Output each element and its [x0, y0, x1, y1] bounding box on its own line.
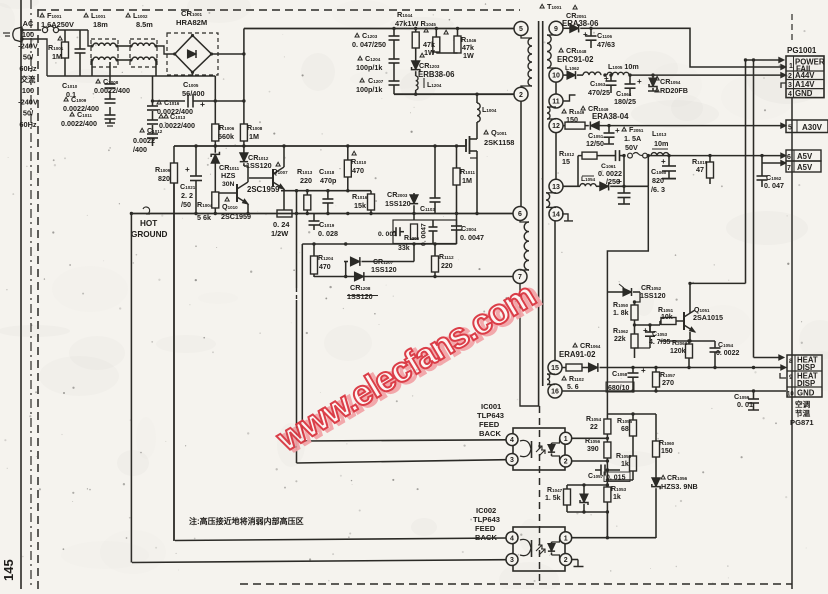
diode CR1049 — [588, 121, 601, 129]
svg-text:1k: 1k — [613, 494, 621, 501]
svg-text:IC002: IC002 — [476, 506, 496, 515]
svg-text:10m: 10m — [654, 139, 668, 148]
wire bridge+ vertical — [242, 29, 245, 125]
svg-text:IC001: IC001 — [481, 402, 502, 411]
svg-text:PG871: PG871 — [790, 418, 814, 427]
wire bridge out — [212, 52, 246, 55]
svg-text:1. 8k: 1. 8k — [613, 310, 629, 317]
label PG871 — [790, 399, 814, 427]
pin 7 — [513, 270, 527, 284]
resistor R1011 — [453, 146, 475, 214]
resistor R1008 — [240, 123, 262, 146]
secondary winding 9-10 — [547, 35, 556, 68]
svg-text:+: + — [661, 157, 666, 166]
zener CR1056 HZS3.9NB — [652, 475, 698, 538]
IC002 pin1 — [560, 532, 572, 544]
svg-text:0. 0047: 0. 0047 — [460, 233, 484, 242]
resistor R1045 — [423, 28, 440, 57]
resistor R1058 1k — [616, 453, 637, 480]
resistor R1204 470 — [311, 244, 334, 277]
pin2 A44V — [788, 71, 815, 80]
pin 9 — [549, 21, 563, 35]
wire IC001 pin4 in — [303, 440, 506, 441]
capacitor C1106 47/63 — [583, 27, 615, 49]
svg-text:CR1056: CR1056 — [667, 475, 688, 482]
wire IC002 pin3 in — [132, 560, 506, 563]
svg-text:C1053: C1053 — [652, 331, 668, 338]
wire stack top — [607, 412, 656, 415]
pin3 A14V — [788, 80, 815, 89]
page left edge — [20, 0, 22, 589]
wire pins 10-11 — [555, 82, 557, 95]
wire base node — [633, 323, 660, 331]
choke L1002 — [130, 39, 158, 67]
wire pin7 row — [314, 275, 514, 278]
svg-text:0. 015: 0. 015 — [606, 475, 626, 482]
svg-text:22k: 22k — [614, 336, 626, 343]
connector HEAT box — [787, 355, 822, 397]
svg-text:ERA38-04: ERA38-04 — [592, 112, 629, 121]
mosfet Q1001 — [466, 122, 514, 214]
wire A5V to mid vertical — [647, 156, 649, 187]
svg-text:1: 1 — [564, 535, 568, 542]
IC002 box — [513, 527, 565, 571]
pin 15 — [548, 361, 562, 375]
wire pin7 down — [520, 283, 540, 406]
capacitor C1010 — [62, 30, 86, 99]
diode pin10 — [563, 71, 584, 79]
wire snubber bottoms — [436, 52, 457, 54]
AC voltage text — [18, 19, 38, 129]
pin 6 — [513, 207, 527, 221]
resistor R1063 120k — [670, 340, 693, 368]
pin1 POWER FAIL — [789, 58, 825, 74]
IC002 pin4 — [506, 532, 518, 544]
svg-text:0. 047/250: 0. 047/250 — [352, 40, 386, 49]
svg-text:HOT: HOT — [140, 219, 157, 228]
svg-text:R1204: R1204 — [318, 255, 334, 262]
svg-text:A30V: A30V — [802, 123, 823, 132]
svg-text:4: 4 — [510, 535, 514, 542]
wire fb horizontal A — [690, 282, 746, 284]
wire fb vertical B — [753, 60, 755, 358]
fuse F2051 — [622, 125, 647, 158]
IC002 photodiode — [548, 538, 560, 560]
wire top bus — [244, 27, 514, 30]
svg-text:+: + — [583, 30, 588, 39]
svg-text:15k: 15k — [354, 201, 366, 210]
wire IC001 pin1 out — [572, 437, 609, 440]
capacitor C1060 820/6.3 — [651, 156, 676, 194]
arrow power fail — [781, 64, 786, 69]
capacitor C1058 680/10 — [606, 366, 646, 392]
svg-text:+: + — [615, 126, 620, 135]
label CR1061 — [562, 5, 599, 28]
svg-text:47/63: 47/63 — [597, 40, 615, 49]
svg-text:33k: 33k — [398, 245, 410, 252]
capacitor 0.0047 rotated — [421, 220, 438, 246]
svg-text:1W: 1W — [424, 48, 435, 57]
svg-text:ERC91-02: ERC91-02 — [557, 55, 594, 64]
resistor R1057 270 — [653, 368, 676, 392]
label L1001 — [84, 11, 108, 29]
svg-text:空调: 空调 — [795, 399, 811, 409]
pin 12 — [549, 119, 563, 133]
fuse F1001 — [42, 26, 88, 33]
resistor R1016 — [352, 191, 375, 214]
capacitor C1019 — [309, 214, 338, 239]
svg-text:1M: 1M — [249, 132, 259, 141]
arrow A30V — [781, 123, 786, 128]
resistor R1102 5.6 — [562, 364, 587, 391]
capacitor C1064 180/25 — [614, 75, 642, 106]
svg-text:C1057: C1057 — [588, 473, 604, 480]
secondary winding 11-12 — [547, 107, 556, 119]
wire 2SA bus top — [607, 291, 620, 293]
IC002 pin2 — [560, 554, 572, 566]
svg-text:1SS120: 1SS120 — [246, 161, 272, 170]
wire N rail to 560k — [214, 76, 216, 101]
svg-text:1/2W: 1/2W — [271, 229, 288, 238]
svg-text:BACK: BACK — [479, 429, 501, 438]
resistor R1013 — [297, 167, 313, 214]
svg-text:R1102: R1102 — [569, 376, 584, 383]
svg-text:ERA38-06: ERA38-06 — [562, 19, 599, 28]
wire pins 12-13 — [555, 132, 557, 180]
svg-text:15: 15 — [562, 157, 570, 166]
svg-text:0.0022/400: 0.0022/400 — [61, 119, 97, 128]
svg-text:+: + — [617, 176, 622, 186]
IC002 labels — [473, 506, 500, 542]
svg-text:0.0022/400: 0.0022/400 — [94, 86, 130, 95]
secondary winding 13-14 — [546, 193, 556, 208]
wire 2SA node — [633, 292, 640, 306]
svg-text:100: 100 — [22, 30, 34, 39]
IC001 pin1 — [560, 432, 572, 444]
svg-text:注:高压接近地将消弱内部高压区: 注:高压接近地将消弱内部高压区 — [189, 516, 304, 526]
svg-text:R1060: R1060 — [659, 440, 675, 447]
pin4 GND — [788, 89, 813, 98]
label CR1064 ERA91-02 — [559, 341, 601, 359]
svg-text:FEED: FEED — [479, 420, 500, 429]
IC001 box — [513, 428, 565, 470]
resistor R1004 — [197, 166, 219, 222]
svg-text:5: 5 — [519, 26, 523, 33]
svg-text:820: 820 — [652, 176, 664, 185]
wire IC002 pin1 out — [572, 536, 656, 539]
svg-text:9: 9 — [789, 374, 793, 381]
svg-text:0. 0047: 0. 0047 — [421, 223, 428, 246]
svg-text:C1103: C1103 — [420, 206, 435, 213]
inductor L1004 — [477, 94, 497, 122]
svg-text:2. 2: 2. 2 — [181, 191, 193, 200]
pin 16 — [548, 384, 562, 398]
svg-text:-240V: -240V — [18, 97, 38, 106]
svg-text:1M: 1M — [52, 52, 62, 61]
wire IC001 pin2 out — [572, 459, 609, 462]
hot ground bus — [131, 212, 513, 215]
wire pin9 to connector — [591, 28, 783, 67]
resistor R1010 — [344, 146, 366, 191]
diode CR2051 — [563, 24, 592, 32]
svg-text:R1050: R1050 — [613, 302, 629, 309]
svg-text:R1112: R1112 — [439, 254, 454, 261]
svg-text:A5V: A5V — [797, 163, 813, 172]
svg-text:HZS: HZS — [221, 171, 236, 180]
zener CR1054 RD20FB — [648, 75, 688, 95]
svg-text:/400: /400 — [133, 145, 147, 154]
resistor R1055 68 — [617, 414, 637, 454]
svg-text:HZS3. 9NB: HZS3. 9NB — [661, 482, 698, 491]
svg-text:390: 390 — [587, 446, 599, 453]
diode row2 — [347, 272, 378, 301]
svg-text:60Hz: 60Hz — [19, 120, 37, 129]
label C1013 — [159, 112, 195, 130]
svg-text:0. 028: 0. 028 — [318, 229, 338, 238]
svg-text:2: 2 — [519, 92, 523, 99]
page number 145 — [1, 559, 16, 581]
svg-text:15: 15 — [551, 365, 559, 372]
resistor R1046 — [444, 29, 477, 61]
svg-text:56/400: 56/400 — [182, 89, 205, 98]
svg-text:3: 3 — [510, 557, 514, 564]
svg-text:4. 7/35: 4. 7/35 — [649, 339, 671, 346]
wire 2SA bottom join — [635, 344, 651, 348]
zener CR1011 — [211, 146, 240, 188]
resistor R1019 47 — [692, 156, 714, 184]
transistor Q1007 — [249, 146, 288, 214]
wire fb loop R1009 v — [173, 183, 175, 541]
wire fb loop inner v1 — [296, 191, 298, 463]
wire pin2 — [394, 93, 514, 96]
label C1016 — [157, 98, 193, 116]
capacitor C1051 12/50 — [586, 126, 620, 148]
isolation dashed line — [539, 406, 541, 584]
wire R1012 down — [577, 156, 579, 187]
svg-text:1M: 1M — [462, 176, 472, 185]
svg-text:R1053: R1053 — [611, 486, 627, 493]
svg-text:11: 11 — [552, 99, 560, 106]
capacitor C1054 0.0022 — [710, 341, 740, 368]
transistor Q1010 — [216, 166, 251, 221]
pin 10 — [549, 68, 563, 82]
resistor R1006 — [212, 101, 235, 146]
wire emitter rail — [281, 189, 371, 192]
label L1062 — [565, 65, 580, 72]
arrow pin15 row8 — [781, 365, 786, 370]
label F1001 — [40, 11, 74, 29]
wire diode row1 — [344, 244, 414, 275]
wire fb loop inner v2 — [301, 244, 303, 441]
resistor R1012 15 — [559, 149, 600, 166]
ground hook pin11 — [563, 95, 576, 101]
wire mid rail — [174, 144, 466, 147]
svg-text:0. 01: 0. 01 — [737, 400, 753, 409]
capacitor C1204 — [356, 40, 400, 72]
capacitor C1061 series — [598, 150, 624, 186]
AC plug — [3, 27, 24, 42]
capacitor C1103 — [420, 146, 441, 214]
svg-text:R2063: R2063 — [672, 340, 688, 347]
svg-text:0. 047: 0. 047 — [764, 181, 784, 190]
connector A30V box — [786, 120, 828, 133]
svg-text:+: + — [641, 366, 646, 375]
resistor R1001 — [48, 30, 69, 76]
svg-text:+: + — [185, 165, 190, 174]
wire A30V — [601, 124, 783, 127]
svg-text:2: 2 — [564, 557, 568, 564]
capacitor C1103 470/25 — [588, 74, 617, 97]
svg-text:470p: 470p — [320, 176, 337, 185]
transformer core — [539, 21, 543, 406]
note text — [189, 516, 304, 526]
RC box 0.001 33k — [378, 220, 457, 252]
watermark elecfans — [269, 274, 545, 462]
connector PG1001 box — [786, 56, 824, 98]
svg-text:TLP643: TLP643 — [477, 411, 504, 420]
wire L input — [22, 29, 41, 31]
pin8 HEAT DISP — [789, 356, 818, 372]
svg-text:470: 470 — [352, 166, 364, 175]
primary winding 5-2 — [521, 35, 532, 88]
wire fb mid rail — [302, 242, 456, 245]
connector PG1001 label — [787, 46, 817, 55]
resistor R1049 — [563, 122, 589, 129]
svg-text:7: 7 — [787, 165, 791, 172]
resistor R1005 0.24 — [271, 210, 292, 238]
capacitor C1059 0.01 — [734, 391, 759, 410]
svg-text:GND: GND — [797, 389, 815, 398]
pin 14 — [549, 207, 563, 221]
svg-text:6: 6 — [518, 211, 522, 218]
svg-text:+: + — [643, 326, 648, 335]
capacitor C2004 0.0047 — [451, 214, 484, 245]
pin 11 — [549, 94, 563, 108]
label C1005 — [182, 80, 205, 98]
wire fb vertical A — [744, 58, 755, 283]
label CR1001 — [176, 9, 207, 27]
svg-text:10: 10 — [787, 392, 794, 398]
IC001 pin2 — [560, 455, 572, 467]
wire choke1 bottom stub — [91, 60, 93, 76]
inductor L1103 — [583, 72, 601, 75]
svg-text:交流: 交流 — [21, 75, 36, 84]
svg-text:4: 4 — [510, 437, 514, 444]
svg-text:10: 10 — [552, 73, 560, 80]
zener D feedback — [580, 485, 588, 512]
capacitor C1203 — [352, 29, 400, 50]
svg-text:5. 6: 5. 6 — [567, 384, 579, 391]
wire pin2 to pin6 — [520, 101, 522, 206]
resistor R1052 1.5k — [545, 485, 571, 512]
arrow into row1b — [746, 57, 785, 62]
svg-text:/6. 3: /6. 3 — [651, 185, 665, 194]
wire A5V rail — [647, 154, 783, 157]
svg-text:TLP643: TLP643 — [473, 515, 500, 524]
capacitor C1018 — [319, 167, 337, 214]
svg-text:0.0022: 0.0022 — [133, 136, 155, 145]
svg-text:9: 9 — [554, 26, 558, 33]
svg-text:100: 100 — [22, 86, 34, 95]
svg-text:12/50: 12/50 — [586, 139, 604, 148]
arrow into HEAT row8 — [754, 355, 785, 360]
svg-text:18m: 18m — [93, 20, 108, 29]
wire choke2 to bridge — [156, 46, 174, 54]
wire 2SA emitter up — [688, 282, 691, 310]
svg-text:/50: /50 — [181, 200, 191, 209]
resistor R1061 10k — [658, 307, 684, 325]
label C1012 — [133, 126, 163, 154]
IC001 photodiode — [548, 438, 560, 460]
svg-text:1SS120: 1SS120 — [371, 265, 397, 274]
IC002 pin3 — [506, 554, 518, 566]
svg-text:R1062: R1062 — [613, 328, 629, 335]
svg-text:180/25: 180/25 — [614, 97, 636, 106]
svg-text:820: 820 — [158, 174, 170, 183]
capacitor C1052 ecap — [611, 176, 648, 204]
label CR1048 — [557, 46, 594, 64]
hot area dashed border bottom — [240, 583, 792, 585]
connector A5V boxes — [786, 150, 821, 172]
inductor L1005 — [607, 62, 639, 75]
wire IC001 pin3 in — [297, 460, 506, 463]
resistor R1054 22 — [586, 414, 611, 440]
svg-text:AC: AC — [23, 19, 34, 28]
svg-text:1: 1 — [564, 436, 568, 443]
capacitor C1005 — [151, 95, 244, 110]
svg-text:1. 5k: 1. 5k — [545, 495, 561, 502]
wire A5V row7 hook — [762, 156, 786, 176]
svg-text:2: 2 — [564, 459, 568, 466]
label R1049 — [562, 107, 585, 124]
left dash-dot border — [30, 0, 32, 589]
svg-text:220: 220 — [300, 176, 312, 185]
pin 13 — [549, 179, 563, 193]
svg-text:R1051: R1051 — [658, 307, 674, 314]
svg-text:22: 22 — [590, 424, 598, 431]
svg-text:1SS120: 1SS120 — [385, 199, 411, 208]
wire N rail — [47, 75, 215, 77]
label C1008 — [94, 77, 130, 95]
svg-text:470/25: 470/25 — [588, 88, 610, 97]
svg-text:L1054: L1054 — [581, 176, 596, 183]
svg-text:50V: 50V — [625, 143, 638, 152]
svg-text:0.0022/400: 0.0022/400 — [159, 121, 195, 130]
svg-text:60Hz: 60Hz — [19, 64, 37, 73]
svg-text:47: 47 — [696, 165, 704, 174]
svg-text:A5V: A5V — [797, 152, 813, 161]
svg-text:0. 24: 0. 24 — [273, 220, 290, 229]
wire choke link top — [117, 45, 131, 47]
svg-text:50/: 50/ — [23, 53, 33, 62]
transformer T1001 label — [540, 2, 562, 11]
svg-text:270: 270 — [662, 378, 674, 387]
capacitor C1064 0.047 — [757, 173, 784, 190]
svg-text:120k: 120k — [670, 348, 686, 355]
diode CR1055 1SS120 — [619, 284, 666, 300]
IC001 pin3 — [506, 454, 518, 466]
svg-text:节温: 节温 — [795, 408, 811, 418]
svg-text:PG1001: PG1001 — [787, 46, 817, 55]
resistor R1009 — [155, 146, 178, 541]
diode pin15 — [586, 363, 602, 372]
wire stack mid — [606, 465, 633, 484]
svg-text:1.6A250V: 1.6A250V — [41, 20, 74, 29]
svg-text:470: 470 — [319, 264, 331, 271]
resistor R1060 1.8k — [613, 302, 638, 325]
secondary winding 15-16 — [547, 374, 555, 385]
svg-text:145: 145 — [1, 559, 16, 581]
